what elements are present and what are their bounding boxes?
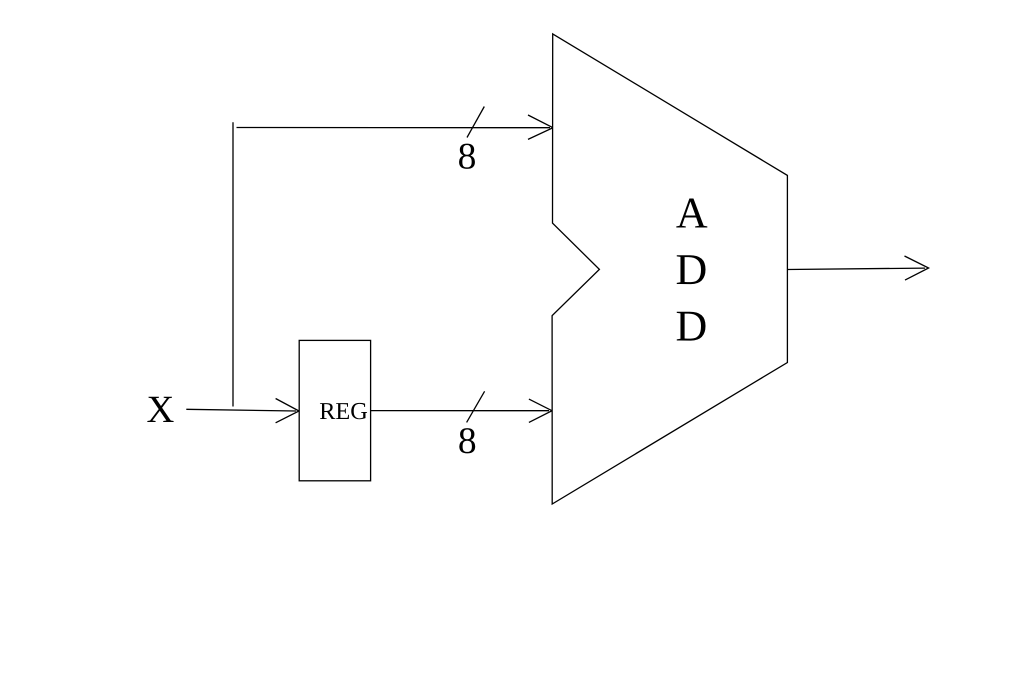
register REG box [299, 340, 370, 480]
svg-text:D: D [676, 302, 708, 351]
bus-width slash on top bus [467, 107, 484, 138]
arrowhead into REG pin [276, 399, 299, 423]
arrowhead into adder bottom input [529, 399, 552, 422]
arrowhead on output [905, 256, 929, 280]
svg-text:X: X [147, 389, 175, 431]
svg-text:8: 8 [458, 136, 477, 177]
wire: X input horizontal segment to REG [186, 409, 296, 411]
svg-text:A: A [676, 188, 708, 237]
wire: top horizontal bus into adder [237, 127, 551, 129]
wire: REG output to adder bottom input [371, 410, 549, 412]
bus-width slash on REG output bus [467, 391, 485, 422]
svg-text:D: D [676, 245, 708, 294]
wire: vertical branch from X wire up to top bus [232, 122, 234, 406]
adder U1 body (ALU trapezoid with left notch) [552, 34, 787, 504]
arrowhead into adder top input [528, 115, 553, 139]
svg-text:REG: REG [319, 398, 368, 425]
svg-text:8: 8 [458, 421, 477, 462]
wire: adder sum output [787, 268, 925, 269]
